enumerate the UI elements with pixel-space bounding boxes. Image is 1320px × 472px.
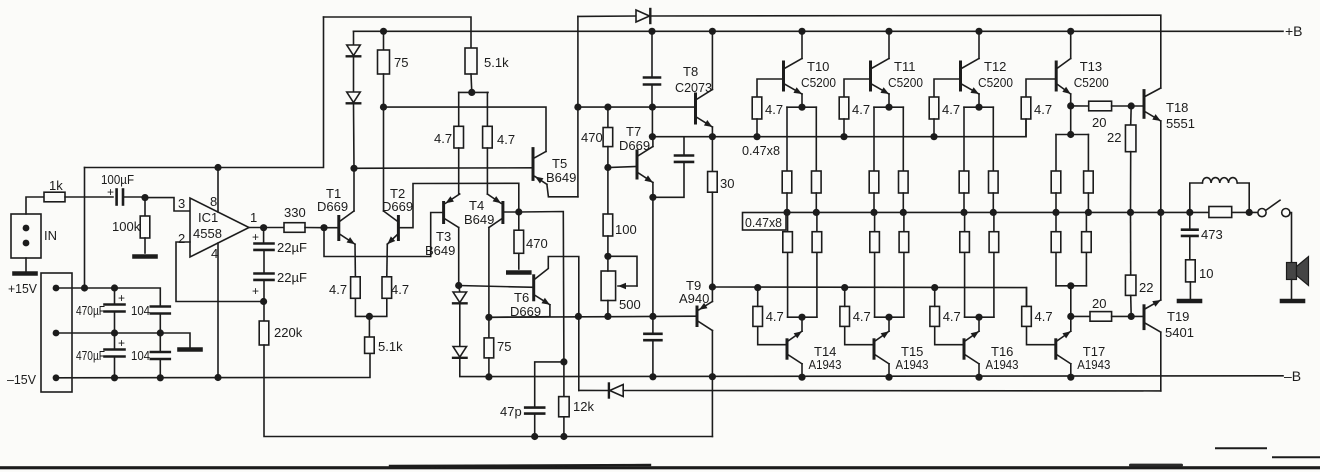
wire T16 emitter (978, 317, 980, 331)
svg-text:4.7: 4.7 (765, 102, 783, 117)
junction pot bottom (604, 313, 611, 320)
transistor Q T19 5401 (1143, 306, 1146, 329)
ground (470 bias) (508, 270, 529, 275)
svg-text:+: + (252, 284, 259, 298)
wire T17 collector to -B (1070, 364, 1072, 377)
svg-text:A940: A940 (679, 291, 709, 306)
transistor Q T1 D669 (337, 217, 340, 240)
wire T18 emitter to rail (1160, 121, 1162, 212)
transistor Q T12 C5200 (959, 62, 962, 90)
resistor 470 (T7) (607, 107, 609, 127)
resistor 0.47 (T12 emitter b) (992, 107, 994, 171)
diode D1 (zener chain) (347, 45, 361, 56)
junction rail T10b (813, 209, 820, 216)
transistor Q T4 B649 (501, 203, 504, 223)
op-amp U IC1 4558 (190, 198, 249, 257)
-B rail (460, 359, 1283, 377)
transistor Q T13 C5200 (1055, 62, 1058, 90)
wire top line to diode (578, 15, 636, 17)
resistor 0.47 (T13 emitter a) (1055, 135, 1057, 172)
input connector IN (11, 214, 41, 258)
T13 emitter network (1070, 94, 1072, 106)
capacitor 470uF B (105, 348, 125, 351)
capacitor (T7 bypass) (683, 138, 685, 156)
junction -B T14 (798, 374, 805, 381)
svg-text:3: 3 (178, 196, 185, 211)
diode D5 (453, 347, 467, 358)
wire T19 emitter to rail (1160, 212, 1162, 300)
wire 5.1k to split (470, 74, 473, 92)
wire T8 collector (711, 31, 713, 89)
capacitor 104 B (151, 351, 170, 354)
wire T11 collector to +B (888, 31, 890, 58)
resistor 0.47 (T16 emitter a) (964, 252, 966, 317)
wire cap to 107 line (651, 85, 653, 108)
wire T9 emitter to feedback run (711, 331, 713, 437)
svg-text:T19: T19 (1167, 309, 1189, 324)
junction lower bias rail start (709, 283, 716, 290)
svg-text:4.7: 4.7 (942, 102, 960, 117)
resistor 0.47 (T15 emitter a) (874, 252, 876, 317)
wire bias line to T5 base (354, 167, 533, 170)
wire T16 collector to -B (978, 364, 980, 377)
svg-text:470: 470 (581, 130, 603, 145)
junction rail T10a (783, 209, 790, 216)
resistor 4.7 (T15 base) (845, 326, 874, 344)
lower bias rail (712, 287, 1026, 306)
resistor 0.47 (T14 emitter b) (816, 252, 818, 317)
junction rail T11a (870, 209, 877, 216)
junction -B T17 (1067, 374, 1074, 381)
junction 470/100/T7 (604, 164, 611, 171)
junction 12k top (560, 358, 567, 365)
wire +B dropper riser (577, 16, 579, 196)
junction mid 470uF (111, 329, 118, 336)
ground (input jack) (15, 271, 36, 276)
wire T5 emitter link (547, 184, 578, 197)
svg-text:20: 20 (1092, 296, 1106, 311)
svg-text:100µF: 100µF (101, 172, 134, 187)
resistor 330 (284, 223, 305, 233)
svg-text:330: 330 (284, 205, 306, 220)
resistor 0.47 (T12 emitter a) (963, 107, 965, 171)
wire T4 base stub (503, 211, 519, 213)
wire 220k to bottom feedback run (264, 345, 712, 437)
junction rail T12a (960, 209, 967, 216)
resistor 22 lower (1130, 212, 1132, 275)
svg-text:104: 104 (131, 348, 150, 363)
wire 4.7 to T4 emitter (486, 148, 488, 194)
svg-text:4.7: 4.7 (329, 282, 347, 297)
svg-text:470µF: 470µF (76, 304, 105, 318)
wire 100uF to node IN2 (123, 196, 145, 198)
wire T2 collector riser (383, 107, 385, 211)
junction 107/470 (604, 104, 611, 111)
capacitor 473 (1189, 212, 1191, 229)
wire between zeners (353, 57, 355, 92)
wire 100 to pot (607, 236, 609, 256)
resistor 100 (607, 168, 609, 215)
wire T12 emitter tee (964, 106, 993, 108)
resistor 100k (144, 198, 146, 216)
wire 20 to T18 base (1112, 105, 1144, 107)
svg-text:2: 2 (178, 231, 185, 246)
junction -15V 470uF (111, 374, 118, 381)
svg-text:4.7: 4.7 (943, 309, 961, 324)
junction +B x652 (648, 28, 655, 35)
svg-text:4.7: 4.7 (766, 309, 784, 324)
svg-text:4: 4 (211, 246, 218, 261)
wire split bar (459, 91, 488, 93)
junction rail T11b (900, 209, 907, 216)
transistor Q T10 C5200 (782, 62, 785, 90)
wire to op-amp pin 3 (145, 198, 190, 211)
diode D4 (453, 292, 467, 303)
junction -15V 104 (157, 374, 164, 381)
junction T9 -B (709, 373, 716, 380)
svg-text:500: 500 (619, 297, 641, 312)
svg-text:220k: 220k (274, 325, 303, 340)
wire 10 to ground (1189, 282, 1191, 299)
resistor 220k (259, 321, 269, 345)
wire T2 emitter to 4.7 (386, 244, 389, 277)
wire 75 to 107 line (383, 74, 385, 107)
svg-text:100k: 100k (112, 219, 141, 234)
transistor Q T11 C5200 (869, 62, 872, 90)
wire to R4.7 right (486, 92, 488, 126)
wire T13 emitter to 20 (1071, 105, 1089, 107)
svg-text:12k: 12k (573, 399, 594, 414)
wire T1 emitter to 4.7 (354, 244, 356, 277)
svg-text:T3: T3 (436, 229, 451, 244)
junction 107 x652 (649, 104, 656, 111)
transistor Q T3 B649 (442, 203, 445, 223)
resistor (L damping) (1209, 207, 1232, 218)
wire +B to cap (651, 31, 653, 77)
junction 75 -B (485, 373, 492, 380)
junction riser 107 (574, 104, 581, 111)
wire T7 emitter to y316 (652, 197, 654, 316)
transistor Q T7 D669 (636, 151, 639, 178)
svg-text:T7: T7 (626, 124, 641, 139)
svg-text:T10: T10 (807, 59, 829, 74)
capacitor 22uF A (255, 242, 274, 245)
capacitor 104 A (151, 305, 170, 308)
wire 107 line right (578, 106, 696, 108)
wire T10 emitter (801, 94, 803, 107)
resistor 4.7 (T12 base) (934, 79, 961, 97)
resistor 4.7 (T1 emitter) (351, 277, 361, 299)
svg-text:4558: 4558 (193, 226, 222, 241)
svg-text:5.1k: 5.1k (378, 339, 403, 354)
junction T11 emitter node (885, 104, 892, 111)
svg-text:8: 8 (210, 194, 217, 209)
+B rail (354, 30, 1284, 32)
svg-text:5401: 5401 (1165, 325, 1194, 340)
svg-text:104: 104 (131, 303, 150, 318)
svg-text:1k: 1k (49, 178, 63, 193)
wire T7 collector (652, 137, 654, 147)
wire tail to 5.1k (368, 316, 370, 337)
junction -B T16 (975, 374, 982, 381)
wire 4.7 to T3 emitter (458, 148, 460, 194)
resistor 0.47 (T11 emitter b) (902, 107, 904, 171)
svg-text:A1943: A1943 (809, 357, 842, 372)
wire T4 base net to 12k node (519, 212, 564, 362)
wire pin 8 to +15V line (217, 168, 219, 213)
transistor Q T8 C2073 (694, 94, 697, 123)
resistor 4.7 (T2 emitter) (382, 277, 392, 299)
junction +B T11 (885, 28, 892, 35)
wire 22 to rail (1130, 152, 1132, 213)
wire 75 to -B (488, 358, 490, 377)
wire T8 emitter (711, 127, 713, 137)
diode D2 (zener chain) (347, 92, 361, 103)
junction +B T13 (1067, 28, 1074, 35)
wire x652 down (651, 107, 653, 137)
resistor 75 upper (383, 31, 385, 50)
svg-text:D669: D669 (619, 138, 650, 153)
resistor 4.7 (T17 base) (1027, 326, 1056, 344)
wire pin 1 output (249, 227, 284, 229)
junction T4 base node (515, 208, 522, 215)
svg-text:T11: T11 (894, 59, 915, 74)
svg-text:470: 470 (526, 236, 548, 251)
wire to diode pair (459, 286, 460, 293)
wire T15 emitter tee (875, 316, 904, 318)
junction upper bias rail start (649, 133, 656, 140)
svg-text:C5200: C5200 (801, 75, 836, 90)
svg-text:C5200: C5200 (888, 75, 923, 90)
transistor Q T18 5551 (1143, 91, 1146, 118)
svg-text:IN: IN (44, 228, 57, 243)
resistor 30 (711, 137, 713, 172)
junction T14 emitter node (798, 314, 805, 321)
wire 30 to T9 node (711, 192, 713, 287)
wire pot wiper loop (608, 256, 637, 286)
junction T8 emitter rail (709, 133, 716, 140)
wire 1k to C 100uF (65, 196, 113, 198)
svg-text:–15V: –15V (7, 372, 36, 387)
resistor 4.7 (T10 base) (757, 79, 784, 97)
wire T10 collector to +B (801, 31, 803, 58)
capacitor 47p (525, 406, 544, 409)
svg-text:+: + (252, 230, 259, 244)
resistor 0.47 (T17 emitter a) (1055, 252, 1057, 285)
junction 47p bottom (531, 433, 538, 440)
output rail (786, 211, 1258, 213)
wire cap to -B (652, 340, 654, 377)
junction T17 tee (1067, 282, 1074, 289)
junction 12k bottom (560, 433, 567, 440)
svg-text:D669: D669 (382, 199, 413, 214)
junction T19 base (1128, 313, 1135, 320)
resistor 4.7 (T4 drive) (483, 126, 493, 148)
capacitor (T9 base) (652, 316, 654, 333)
wire node to 220k (263, 302, 265, 322)
svg-text:T18: T18 (1166, 100, 1188, 115)
transistor Q T6 D669 (532, 276, 535, 300)
junction 5.1k split (468, 89, 475, 96)
resistor 5.1k tail (365, 337, 375, 353)
wire +15V row (56, 288, 160, 307)
svg-text:T13: T13 (1080, 59, 1102, 74)
svg-text:T6: T6 (514, 290, 529, 305)
wire cap to T7 emitter (653, 162, 684, 197)
transistor Q T16 A1943 (963, 340, 966, 358)
junction T15 emitter node (885, 314, 892, 321)
resistor 4.7 (T3 drive) (454, 126, 464, 148)
wire T6 emitter line (489, 316, 550, 319)
junction rail T12b (990, 209, 997, 216)
svg-text:A1943: A1943 (986, 357, 1019, 372)
wire 20 to T19 base stub (1112, 315, 1144, 317)
junction y316 cap (649, 313, 656, 320)
ground (speaker) (1282, 299, 1303, 304)
wire 470 to T7 base (607, 147, 609, 168)
wire T19 collector to diode line (1160, 332, 1162, 391)
wire 0V mid row (56, 333, 190, 347)
junction T18 base (1128, 102, 1135, 109)
wire to T6 base (459, 286, 534, 288)
wire T10 emitter tee (787, 106, 816, 108)
junction feedback node (260, 298, 267, 305)
resistor 75 lower (484, 338, 494, 358)
junction rail 22 (1127, 209, 1134, 216)
junction input node (141, 194, 148, 201)
wire to R4.7 left (458, 92, 460, 126)
wire 22 to T19 base (1130, 295, 1133, 316)
wire T3 collector down (458, 228, 460, 286)
svg-text:+15V: +15V (8, 281, 37, 296)
svg-text:B649: B649 (425, 243, 455, 258)
wire to 47p (535, 362, 564, 408)
transistor Q T15 A1943 (873, 340, 876, 358)
junction +B T10 (798, 28, 805, 35)
svg-text:A1943: A1943 (1077, 357, 1110, 372)
resistor 0.47 (T15 emitter b) (903, 252, 905, 317)
junction pot top (604, 253, 611, 260)
resistor 4.7 (T13 base) (1026, 79, 1056, 97)
wire pin 2 feedback (176, 242, 264, 302)
wire speaker to ground (1291, 280, 1293, 299)
svg-text:IC1: IC1 (198, 210, 218, 225)
svg-text:4.7: 4.7 (391, 282, 409, 297)
junction riser y316 (575, 313, 582, 320)
svg-text:5.1k: 5.1k (484, 55, 509, 70)
wire pot to y316 (607, 301, 609, 317)
scan artifact lines (0, 466, 1320, 469)
wire op-amp supply line to top (85, 17, 324, 168)
junction T12 emitter node (975, 104, 982, 111)
junction T1 base node (320, 224, 327, 231)
junction rail L/473 (1186, 209, 1193, 216)
svg-text:47p: 47p (500, 404, 522, 419)
wire T17 emitter to 20 (1071, 315, 1090, 317)
junction pin4 -15V (214, 374, 221, 381)
wire 12k to run (563, 417, 565, 437)
resistor 0.47 (T16 emitter b) (993, 252, 995, 317)
junction +B T12 (975, 28, 982, 35)
wire out to C 22uF A (263, 228, 265, 244)
svg-text:B649: B649 (546, 170, 576, 185)
junction T10 emitter node (798, 104, 805, 111)
wire T15 collector to -B (888, 364, 890, 377)
wire pin 4 to -15V row (217, 243, 219, 378)
power connector block (41, 273, 72, 392)
svg-text:D669: D669 (317, 199, 348, 214)
resistor 0.47 (T11 emitter a) (873, 107, 875, 171)
svg-text:4.7: 4.7 (434, 131, 452, 146)
switch lever (1266, 200, 1280, 210)
upper bias rail (652, 119, 1026, 137)
capacitor 470uF A (105, 303, 125, 306)
transistor Q T2 D669 (397, 217, 400, 240)
wire 100k to ground (144, 238, 146, 253)
junction +B T8 (709, 28, 716, 35)
junction T4 coll / 75 (485, 314, 492, 321)
svg-text:+B: +B (1285, 23, 1303, 39)
wire T9 collector (711, 287, 713, 302)
wire T11 emitter (888, 94, 890, 107)
wire 22uF B to node (263, 280, 265, 302)
svg-text:T8: T8 (683, 64, 698, 79)
junction output node (260, 224, 267, 231)
wire +B to zeners (353, 31, 355, 45)
svg-text:75: 75 (497, 339, 511, 354)
wire T13 collector to +B (1070, 31, 1072, 58)
wire to 470 bias (518, 212, 520, 230)
junction -B T15 (885, 374, 892, 381)
transistor Q T5 B649 (532, 149, 535, 180)
junction +15V 470uF (111, 284, 118, 291)
potentiometer 500 (601, 271, 616, 301)
junction T17 emitter (1067, 313, 1074, 320)
wire 473 to 10 (1189, 236, 1191, 260)
wire T14 emitter (801, 317, 803, 331)
svg-text:C5200: C5200 (1074, 75, 1109, 90)
svg-text:T5: T5 (552, 156, 567, 171)
resistor 22 upper (1130, 106, 1133, 125)
wire top line A (324, 17, 472, 48)
svg-text:A1943: A1943 (896, 357, 929, 372)
svg-text:4.7: 4.7 (1034, 102, 1052, 117)
ground (100k) (135, 254, 156, 259)
resistor 20 lower (1090, 312, 1112, 322)
junction T3 collector / T6 base (455, 282, 462, 289)
box label 0.47x8 lower (743, 213, 787, 231)
wire bias line y316 (489, 316, 697, 317)
wire switch to speaker (1290, 213, 1292, 263)
ground (zobel) (1179, 299, 1200, 304)
resistor 4.7 (T16 base) (935, 326, 964, 344)
wire 47p to run (534, 414, 536, 437)
resistor 0.47 (T17 emitter b) (1085, 252, 1087, 285)
svg-text:+: + (107, 185, 114, 199)
wire T12 collector to +B (978, 31, 980, 58)
svg-text:T4: T4 (469, 198, 484, 213)
inductor L (1190, 183, 1203, 212)
junction cap -B (649, 373, 656, 380)
svg-text:473: 473 (1201, 227, 1223, 242)
wire IN jack to ground (25, 258, 27, 271)
wire +15V riser (84, 168, 86, 289)
junction zener/T1 collector (350, 165, 357, 172)
svg-text:C2073: C2073 (675, 80, 712, 95)
wire T14 collector to -B (801, 364, 803, 377)
wire T16 emitter tee (965, 316, 994, 318)
resistor 470 (T4 bias) (514, 230, 524, 253)
